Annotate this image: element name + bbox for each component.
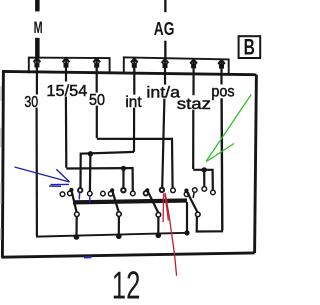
- svg-text:M: M: [34, 18, 43, 37]
- terminal int (arrow + pad): [131, 59, 138, 74]
- red arrow (points at int/a contact): [163, 193, 177, 276]
- scan artifacts left edge: [0, 86, 2, 240]
- contact b: [68, 191, 73, 196]
- svg-text:int/a: int/a: [146, 84, 180, 101]
- switch 2 lever: [112, 190, 119, 212]
- wire junction to contact d: [89, 154, 92, 192]
- switch 4 pivot: [196, 212, 201, 217]
- connector block M (left): [29, 58, 110, 74]
- switch 1 wire to bus: [75, 217, 77, 237]
- svg-text:B: B: [244, 35, 255, 60]
- wire staz horizontal run: [193, 170, 213, 190]
- switch 1 lever dot: [69, 188, 73, 192]
- contact h: [131, 191, 136, 196]
- contact d: [88, 191, 93, 196]
- green arrow (points at staz junction): [206, 95, 251, 162]
- junction dot 15/54 to contact g: [121, 166, 126, 171]
- junction dot bus 1: [74, 234, 80, 240]
- contact n: [202, 187, 207, 192]
- junction dot bus 3: [156, 233, 162, 239]
- junction dot bus end: [184, 230, 189, 235]
- contact c: [78, 188, 82, 192]
- contact l: [184, 192, 189, 197]
- wire junction to contact n: [203, 170, 205, 187]
- svg-text:AG: AG: [154, 19, 175, 39]
- wire 15/54 horizontal run: [66, 168, 133, 192]
- contact k: [171, 188, 176, 193]
- terminal pos (arrow + pad): [218, 60, 225, 74]
- terminal 15/54 (arrow + pad): [63, 58, 70, 72]
- switch 2 lever dot: [110, 188, 114, 192]
- wire AG feed: [164, 0, 166, 59]
- junction dot bus 2: [116, 234, 122, 240]
- wire 30 column: [35, 67, 38, 235]
- contact f: [108, 192, 113, 197]
- wire bar to bus: [186, 202, 188, 233]
- terminal staz (arrow + pad): [190, 60, 197, 74]
- wire int/a column: [162, 68, 165, 188]
- terminal 30 (arrow + pad): [34, 58, 41, 72]
- contact a: [60, 192, 65, 197]
- contact i: [144, 191, 148, 195]
- switch 3 lever: [147, 190, 158, 212]
- actuator bar: [73, 201, 187, 203]
- svg-text:12: 12: [112, 264, 141, 305]
- label B (boxed): [239, 35, 261, 60]
- wire int lower horizontal run: [81, 152, 135, 188]
- switch 4 lever dot: [184, 189, 188, 193]
- blue tick on contact d: [89, 196, 91, 202]
- wire int column: [133, 68, 136, 152]
- wire staz column: [192, 68, 195, 169]
- wire M feed (thick): [35, 0, 40, 58]
- wire 50 upper horizontal run: [97, 139, 173, 188]
- blue tick on contact c: [78, 193, 80, 200]
- wire pos to switch 4 pivot: [197, 216, 223, 231]
- switch 3 wire to bus: [157, 217, 159, 236]
- switch 1 lever: [71, 190, 76, 212]
- wire junction to contact g: [122, 168, 124, 188]
- switch 1 pivot: [75, 212, 80, 217]
- terminal int/a (arrow + pad): [162, 59, 169, 73]
- contact g: [121, 188, 125, 192]
- junction dot staz: [202, 167, 207, 172]
- stub under contact m: [192, 192, 195, 198]
- contact e: [101, 191, 106, 196]
- blue arrow (points at contact row): [15, 167, 70, 186]
- switch housing box: [1, 71, 256, 257]
- switch 2 wire to bus: [118, 216, 120, 236]
- terminal 50 (arrow + pad): [93, 59, 100, 73]
- contact o: [211, 190, 216, 195]
- contact j (int/a): [160, 188, 164, 192]
- wire pos column: [220, 68, 223, 231]
- switch 2 pivot: [117, 212, 122, 217]
- junction dot int branch: [88, 151, 93, 156]
- contact m: [193, 188, 198, 193]
- wire 50 column: [96, 68, 98, 139]
- bottom bus wire: [37, 233, 187, 237]
- switch 3 lever dot: [145, 188, 149, 192]
- connector block AG (right): [124, 57, 229, 74]
- switch 3 pivot: [156, 212, 161, 217]
- svg-text:pos: pos: [211, 84, 234, 101]
- switch 4 lever: [186, 191, 197, 213]
- wire 15/54 column: [65, 67, 68, 167]
- blue mark on bottom edge: [84, 256, 92, 258]
